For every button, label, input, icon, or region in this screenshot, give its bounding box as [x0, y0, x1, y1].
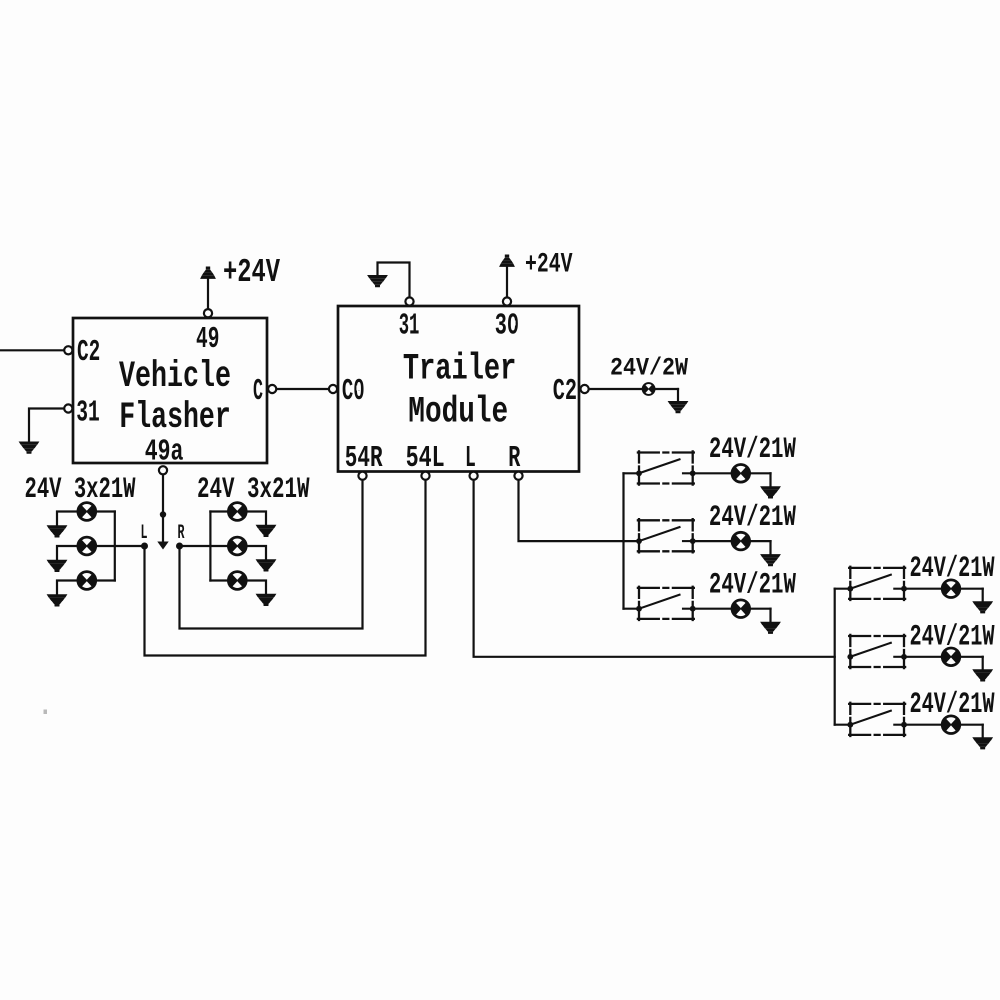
wire C to C0	[277, 388, 329, 390]
pin 54R	[358, 472, 366, 480]
switch S5	[847, 635, 907, 668]
wire bus to switch row1	[624, 472, 640, 474]
pin 31 (TM top)	[405, 297, 413, 305]
wire TM 31 to ground	[378, 263, 410, 298]
bus (right cluster)	[209, 512, 211, 581]
ground L2	[47, 560, 68, 572]
wire bus to switch row2	[624, 540, 640, 542]
svg-text:Flasher: Flasher	[119, 397, 231, 439]
svg-text:C2: C2	[77, 335, 100, 370]
vehicle flasher box	[73, 318, 267, 463]
wire 31 to ground	[29, 409, 64, 442]
wire switch to lamp row3	[693, 608, 771, 610]
svg-text:Vehicle: Vehicle	[119, 356, 231, 398]
wire switch to lamp row2	[693, 540, 771, 542]
svg-text:C0: C0	[342, 374, 365, 409]
svg-text:24V 3x21W: 24V 3x21W	[25, 473, 136, 507]
bus (left cluster)	[114, 512, 116, 581]
svg-text:Trailer: Trailer	[403, 348, 516, 390]
svg-text:L: L	[141, 522, 148, 545]
lamp R1	[227, 501, 248, 522]
pin C0	[329, 385, 337, 393]
trailer module box	[338, 306, 579, 472]
ground f-row3	[972, 737, 993, 749]
switch S1	[636, 451, 696, 484]
svg-text:31: 31	[76, 395, 100, 430]
svg-text:49a: 49a	[145, 435, 184, 470]
wire down to ground row3	[769, 609, 771, 622]
svg-text:C2: C2	[553, 374, 577, 409]
wire switch to lamp f-row3	[904, 724, 983, 726]
+24V arrow (TM)	[499, 255, 515, 267]
pin C (VF right)	[268, 385, 276, 393]
switch S3	[636, 587, 696, 620]
wire row1	[210, 512, 266, 525]
bus (far group)	[834, 589, 836, 725]
wire row3	[210, 581, 266, 594]
node L junction dot	[141, 543, 148, 550]
node R junction dot	[176, 543, 183, 550]
switch S6	[847, 703, 907, 736]
pin 54L	[421, 472, 429, 480]
wire row2	[57, 546, 145, 560]
wire down to ground row1	[769, 473, 771, 486]
ground (TM 31)	[367, 275, 388, 287]
ground (24V/2W)	[668, 401, 689, 413]
ground R3	[256, 594, 277, 606]
wire down to ground f-row1	[982, 589, 984, 602]
lamp L1	[77, 501, 98, 522]
wire 49 to +24V	[207, 280, 209, 309]
svg-text:31: 31	[399, 309, 420, 344]
wire L pin to far switch bus	[474, 480, 835, 657]
ground R1	[256, 525, 277, 537]
wire row1	[57, 512, 115, 526]
ground f-row2	[972, 669, 993, 681]
ground (VF pin 31)	[19, 442, 40, 454]
lamp 24V/2W	[642, 382, 656, 396]
wire R pin to middle switch bus	[519, 480, 624, 541]
switch S4	[847, 567, 907, 600]
lamp R2	[227, 536, 248, 557]
wire row2	[180, 546, 267, 559]
svg-text:C: C	[253, 374, 263, 409]
ground row2	[760, 554, 781, 566]
svg-text:24V/21W: 24V/21W	[709, 433, 796, 467]
wire down to ground f-row2	[982, 657, 984, 670]
wire bus to switch row3	[624, 608, 640, 610]
wire switch to lamp row1	[693, 472, 771, 474]
pin R	[514, 472, 522, 480]
wire 30 to +24V	[506, 268, 508, 298]
svg-text:30: 30	[495, 309, 519, 344]
svg-text:Module: Module	[408, 392, 508, 434]
svg-text:+24V: +24V	[525, 249, 573, 280]
bus (middle group)	[622, 473, 624, 608]
wire C2 to lamp	[589, 388, 678, 390]
svg-text:+24V: +24V	[223, 254, 280, 291]
lamp L3	[77, 570, 98, 591]
wire into C2 from left edge	[0, 349, 64, 351]
ground f-row1	[972, 601, 993, 613]
pin 49a (VF bottom)	[159, 466, 167, 474]
pin L	[470, 472, 478, 480]
svg-text:R: R	[178, 522, 185, 545]
junction dot on 49a wire	[160, 511, 166, 517]
wire row3	[57, 581, 115, 595]
pin C2 (TM right)	[581, 385, 589, 393]
lamp 24V/21W row2	[731, 531, 751, 551]
svg-text:24V 3x21W: 24V 3x21W	[197, 473, 310, 507]
ground L3	[47, 594, 68, 606]
wire 49a down	[162, 475, 164, 542]
ground L1	[47, 525, 68, 537]
wire down to ground	[677, 389, 679, 401]
wire down to ground row2	[769, 541, 771, 554]
lamp L2	[77, 536, 98, 557]
svg-text:24V/21W: 24V/21W	[709, 568, 796, 602]
wire bus to switch f-row1	[835, 588, 851, 590]
arrow down at end of 49a wire	[157, 542, 168, 550]
lamp 24V/21W f-row3	[941, 715, 961, 735]
svg-text:24V/2W: 24V/2W	[610, 353, 688, 382]
svg-text:49: 49	[196, 322, 219, 357]
wire switch to lamp f-row2	[904, 656, 983, 658]
svg-text:24V/21W: 24V/21W	[910, 688, 995, 722]
lamp 24V/21W row3	[731, 599, 751, 619]
lamp 24V/21W row1	[731, 463, 751, 483]
ground row1	[760, 486, 781, 498]
lamp 24V/21W f-row1	[941, 579, 961, 599]
ground R2	[256, 559, 277, 571]
faint printing smudge	[44, 710, 48, 715]
svg-text:24V/21W: 24V/21W	[910, 620, 995, 654]
+24V arrow (VF)	[200, 267, 216, 279]
lamp R3	[227, 570, 248, 591]
ground row3	[760, 622, 781, 634]
pin 30 (TM top)	[503, 297, 511, 305]
wire down to ground f-row3	[982, 725, 984, 738]
wire L node to 54L	[145, 480, 426, 656]
pin C2 (VF)	[64, 346, 72, 354]
switch S2	[636, 519, 696, 552]
svg-text:24V/21W: 24V/21W	[910, 552, 995, 586]
wire bus to switch f-row3	[835, 724, 851, 726]
svg-text:24V/21W: 24V/21W	[709, 501, 796, 535]
lamp 24V/21W f-row2	[941, 647, 961, 667]
pin 49 (VF top)	[204, 309, 212, 317]
pin 31 (VF)	[64, 404, 72, 412]
wire switch to lamp f-row1	[904, 588, 983, 590]
wire R node to 54R	[180, 480, 363, 629]
